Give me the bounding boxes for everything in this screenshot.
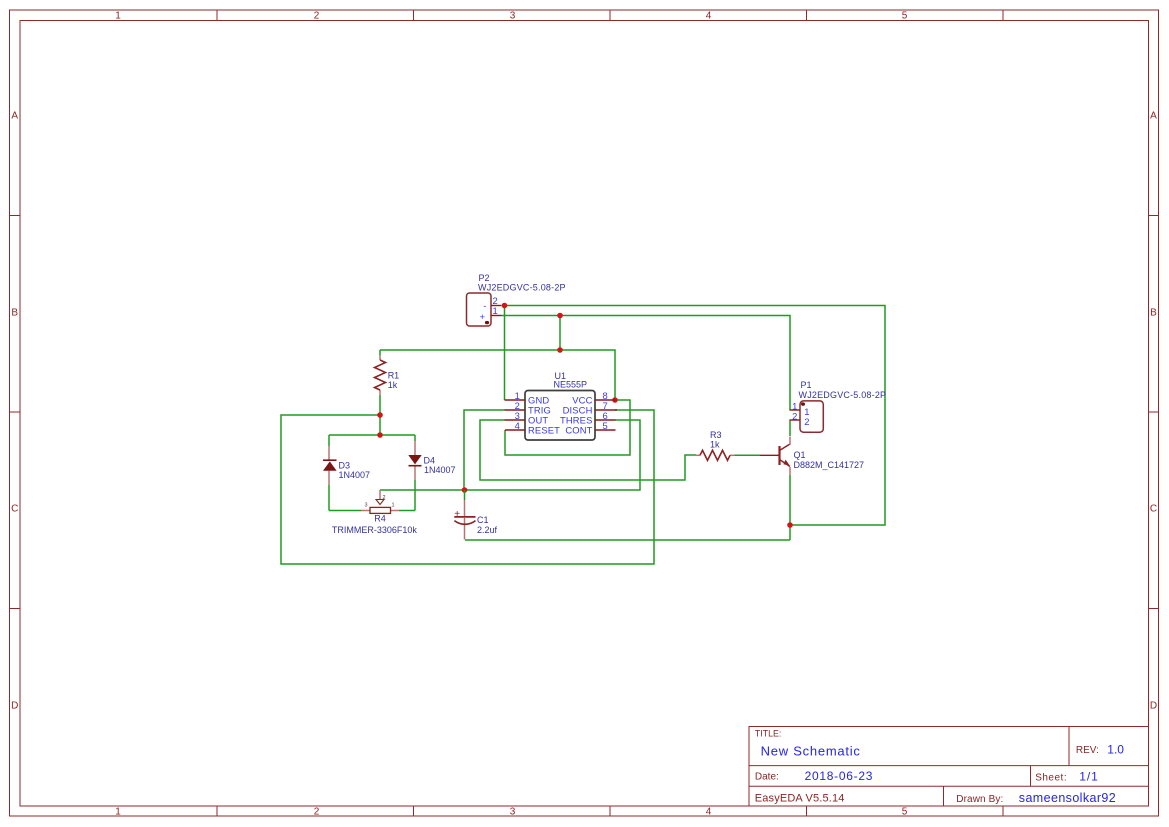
svg-text:5: 5: [603, 420, 608, 431]
svg-text:A: A: [1150, 111, 1157, 122]
svg-text:1: 1: [115, 11, 121, 22]
svg-text:Sheet:: Sheet:: [1035, 772, 1067, 783]
svg-text:-: -: [483, 300, 486, 311]
svg-text:Drawn By:: Drawn By:: [956, 794, 1003, 805]
svg-text:+: +: [454, 509, 460, 520]
svg-text:RESET: RESET: [528, 425, 560, 436]
svg-text:1N4007: 1N4007: [424, 465, 456, 475]
svg-text:2: 2: [383, 495, 386, 501]
svg-text:New Schematic: New Schematic: [761, 744, 861, 759]
svg-text:1: 1: [392, 502, 395, 508]
svg-text:1: 1: [115, 806, 121, 817]
svg-text:P1: P1: [801, 380, 812, 390]
svg-text:2: 2: [792, 410, 797, 421]
svg-text:+: +: [480, 311, 486, 322]
svg-text:1.0: 1.0: [1107, 742, 1124, 756]
svg-text:2: 2: [314, 11, 320, 22]
svg-text:A: A: [11, 111, 18, 122]
svg-text:Q1: Q1: [794, 450, 806, 460]
svg-text:1/1: 1/1: [1079, 770, 1098, 784]
svg-text:4: 4: [515, 420, 520, 431]
svg-text:2: 2: [804, 416, 809, 427]
svg-text:3: 3: [510, 806, 516, 817]
svg-text:B: B: [11, 308, 18, 319]
svg-text:1k: 1k: [388, 380, 398, 390]
svg-text:5: 5: [902, 11, 908, 22]
svg-text:WJ2EDGVC-5.08-2P: WJ2EDGVC-5.08-2P: [799, 390, 887, 400]
svg-text:5: 5: [902, 806, 908, 817]
svg-text:3: 3: [364, 502, 367, 508]
svg-text:D: D: [1150, 701, 1157, 712]
svg-text:2018-06-23: 2018-06-23: [805, 769, 874, 783]
svg-text:TITLE:: TITLE:: [755, 728, 781, 738]
svg-text:1N4007: 1N4007: [339, 470, 371, 480]
svg-text:REV:: REV:: [1076, 745, 1099, 756]
svg-text:Date:: Date:: [755, 772, 779, 783]
svg-text:WJ2EDGVC-5.08-2P: WJ2EDGVC-5.08-2P: [478, 283, 566, 293]
svg-text:4: 4: [706, 11, 712, 22]
svg-text:2: 2: [314, 806, 320, 817]
svg-text:TRIMMER-3306F10k: TRIMMER-3306F10k: [332, 525, 418, 535]
svg-text:CONT: CONT: [565, 425, 592, 436]
svg-text:2.2uf: 2.2uf: [477, 525, 498, 535]
svg-text:3: 3: [510, 11, 516, 22]
svg-text:EasyEDA V5.5.14: EasyEDA V5.5.14: [755, 793, 845, 805]
svg-text:1k: 1k: [710, 439, 720, 449]
svg-text:B: B: [1150, 308, 1157, 319]
svg-text:C: C: [1150, 504, 1157, 515]
svg-text:R1: R1: [388, 371, 400, 381]
svg-text:1: 1: [493, 305, 498, 316]
svg-text:4: 4: [706, 806, 712, 817]
svg-text:P2: P2: [479, 273, 490, 283]
svg-text:C: C: [11, 504, 18, 515]
svg-text:D882M_C141727: D882M_C141727: [794, 460, 865, 470]
svg-text:D3: D3: [339, 460, 351, 470]
svg-text:C1: C1: [477, 515, 489, 525]
svg-text:R4: R4: [374, 513, 386, 523]
svg-text:sameensolkar92: sameensolkar92: [1019, 791, 1116, 805]
svg-text:D: D: [11, 701, 18, 712]
svg-text:NE555P: NE555P: [554, 380, 588, 390]
